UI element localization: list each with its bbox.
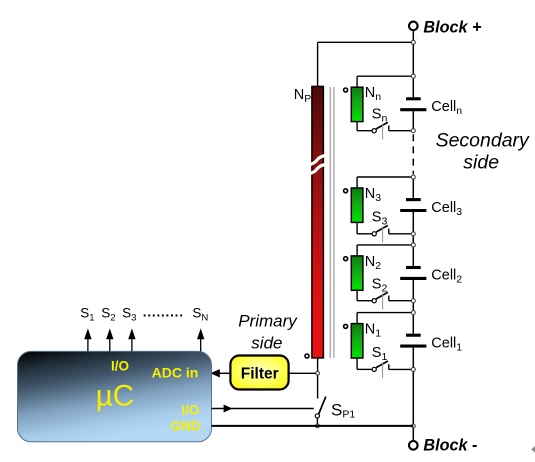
svg-text:GND: GND: [170, 419, 200, 434]
svg-text:Primary: Primary: [238, 312, 298, 331]
svg-text:ADC in: ADC in: [152, 364, 199, 380]
svg-text:.........: .........: [143, 304, 184, 319]
svg-text:Filter: Filter: [241, 366, 279, 383]
svg-text:Block -: Block -: [423, 436, 477, 454]
svg-text:µC: µC: [96, 379, 134, 412]
svg-text:Secondary: Secondary: [436, 129, 530, 151]
svg-text:I/O: I/O: [181, 402, 199, 417]
svg-text:Block +: Block +: [423, 18, 482, 36]
svg-text:side: side: [251, 334, 282, 353]
svg-text:I/O: I/O: [111, 358, 129, 373]
svg-text:side: side: [463, 152, 499, 174]
